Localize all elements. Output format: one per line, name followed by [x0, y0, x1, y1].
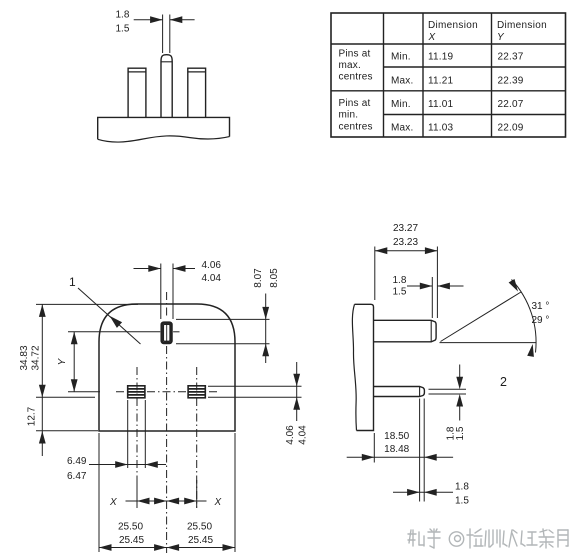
svg-text:8.05: 8.05	[269, 268, 280, 288]
svg-text:1.5: 1.5	[116, 24, 130, 35]
svg-text:min.: min.	[339, 110, 359, 121]
svg-text:18.48: 18.48	[384, 444, 409, 455]
svg-text:22.09: 22.09	[498, 123, 524, 134]
svg-text:X: X	[109, 497, 117, 508]
svg-text:12.7: 12.7	[27, 406, 38, 426]
svg-text:1.5: 1.5	[455, 496, 469, 507]
svg-text:6.47: 6.47	[67, 471, 87, 482]
svg-text:25.50: 25.50	[187, 522, 212, 533]
svg-text:11.01: 11.01	[428, 99, 454, 110]
svg-text:2: 2	[500, 375, 507, 389]
svg-text:1.8: 1.8	[393, 275, 407, 286]
svg-text:22.07: 22.07	[498, 99, 524, 110]
svg-text:X: X	[428, 32, 436, 43]
svg-text:25.50: 25.50	[118, 522, 143, 533]
svg-text:Dimension: Dimension	[428, 20, 478, 31]
svg-text:4.04: 4.04	[202, 273, 222, 284]
svg-text:29 °: 29 °	[532, 315, 550, 326]
svg-text:6.49: 6.49	[67, 456, 87, 467]
svg-text:1.5: 1.5	[393, 287, 407, 298]
svg-text:max.: max.	[339, 60, 361, 71]
svg-text:1.8: 1.8	[116, 10, 130, 21]
svg-text:25.45: 25.45	[188, 535, 213, 546]
svg-text:22.37: 22.37	[498, 52, 524, 63]
svg-text:centres: centres	[339, 72, 373, 83]
svg-text:1: 1	[69, 275, 76, 289]
svg-text:1.5: 1.5	[455, 426, 466, 440]
svg-text:11.03: 11.03	[428, 123, 454, 134]
svg-text:18.50: 18.50	[384, 431, 409, 442]
svg-text:1.8: 1.8	[455, 482, 469, 493]
svg-text:11.19: 11.19	[428, 52, 454, 63]
svg-text:8.07: 8.07	[253, 268, 264, 288]
svg-text:23.23: 23.23	[393, 237, 418, 248]
svg-text:Pins at: Pins at	[339, 98, 371, 109]
svg-text:11.21: 11.21	[428, 76, 454, 87]
svg-text:Min.: Min.	[391, 99, 411, 110]
svg-text:4.04: 4.04	[298, 425, 309, 445]
svg-text:Pins at: Pins at	[339, 49, 371, 60]
svg-text:Max.: Max.	[391, 76, 413, 87]
svg-text:X: X	[214, 497, 222, 508]
svg-text:Min.: Min.	[391, 52, 411, 63]
svg-text:25.45: 25.45	[119, 535, 144, 546]
svg-text:Max.: Max.	[391, 123, 413, 134]
svg-text:4.06: 4.06	[202, 260, 222, 271]
svg-text:22.39: 22.39	[498, 76, 524, 87]
svg-text:centres: centres	[339, 121, 373, 132]
svg-text:Dimension: Dimension	[497, 20, 547, 31]
svg-text:4.06: 4.06	[285, 425, 296, 445]
svg-text:31 °: 31 °	[532, 301, 550, 312]
svg-text:34.72: 34.72	[31, 345, 42, 370]
svg-text:23.27: 23.27	[393, 223, 418, 234]
svg-text:34.83: 34.83	[19, 345, 30, 370]
